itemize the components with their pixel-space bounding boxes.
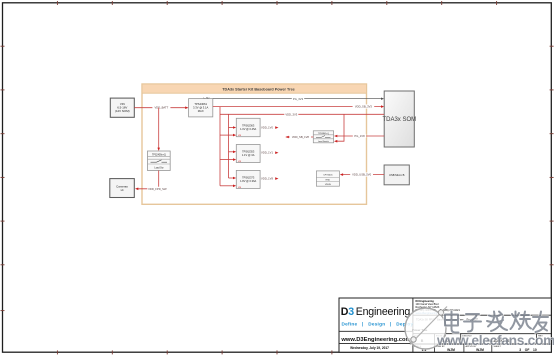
ESD protection U7 xyxy=(316,171,339,186)
wire VDD_FPD_SW to cameras xyxy=(135,171,167,192)
svg-text:3 OF 10: 3 OF 10 xyxy=(519,348,537,352)
svg-text:x4: x4 xyxy=(120,188,123,192)
wire PG_1V8 from SOM xyxy=(334,134,384,138)
svg-text:D3Engineering: D3Engineering xyxy=(341,306,411,318)
watermark elecfans xyxy=(436,312,554,349)
svg-text:3.3V @ 3.1A: 3.3V @ 3.1A xyxy=(193,106,208,110)
wire PG_3V3 xyxy=(213,97,384,101)
svg-text:VDD_FPD_SW: VDD_FPD_SW xyxy=(148,187,167,191)
svg-text:Load Sw: Load Sw xyxy=(154,168,163,170)
svg-text:L_NO: L_NO xyxy=(204,97,210,99)
svg-text:ESD: ESD xyxy=(326,179,331,181)
svg-text:VBUS: VBUS xyxy=(325,184,331,186)
wire stubs into buck U3 xyxy=(220,126,236,136)
svg-text:MAX: MAX xyxy=(198,109,204,113)
svg-text:WJM: WJM xyxy=(476,348,484,352)
wire stubs into buck U5 xyxy=(220,177,236,187)
wire VDD_USB_5V0 xyxy=(340,172,384,176)
svg-text:1.8V @ 0.36A: 1.8V @ 0.36A xyxy=(240,179,256,183)
svg-text:1.1V @ 3A: 1.1V @ 3A xyxy=(242,153,255,157)
svg-text:TPS3809+Q: TPS3809+Q xyxy=(318,133,330,135)
supervisor load switch U6 TPS3809 xyxy=(313,131,333,143)
svg-text:TPS62353: TPS62353 xyxy=(242,150,255,154)
load switch U2 TPS2459 xyxy=(148,151,171,171)
svg-text:VDD_3V3: VDD_3V3 xyxy=(285,112,297,116)
svg-text:WJM: WJM xyxy=(447,348,455,352)
watermark stamp xyxy=(405,307,447,350)
svg-text:TDA3x Starter Kit Baseboard Po: TDA3x Starter Kit Baseboard Power Tree xyxy=(222,87,295,91)
svg-text:VDD_SB_1V8: VDD_SB_1V8 xyxy=(292,135,310,139)
svg-text:VDD_USB_5V0: VDD_USB_5V0 xyxy=(352,173,371,177)
svg-text:TPS62363: TPS62363 xyxy=(242,124,255,128)
wire VDD_3V3 xyxy=(220,112,384,116)
wire drop to load switch xyxy=(157,108,160,151)
VIN source J1 xyxy=(110,98,134,117)
node VDD_1V1 output xyxy=(261,151,279,155)
svg-text:Define | Design | Depl: Define | Design | Deploy xyxy=(342,321,414,326)
power tree boundary frame xyxy=(142,84,367,204)
svg-text:PG_1V8: PG_1V8 xyxy=(354,134,365,138)
wire stubs into buck U4 xyxy=(220,151,236,161)
buck converter U1 TPS43061 3.3V xyxy=(189,97,213,116)
buck converter U3 1.0V xyxy=(236,118,260,137)
svg-text:PG_3V3: PG_3V3 xyxy=(293,97,304,101)
wire vertical bus A xyxy=(219,107,221,186)
wire 1V8 feed into U6 xyxy=(334,114,344,142)
svg-text:Wednesday, July 19, 2017: Wednesday, July 19, 2017 xyxy=(350,346,389,350)
svg-text:CPV5001: CPV5001 xyxy=(323,175,333,177)
wire VDD_SB_1V8 output of U6 xyxy=(286,135,314,139)
wire VDD_BATT xyxy=(134,105,188,109)
svg-text:VDD_1V8: VDD_1V8 xyxy=(261,177,273,181)
camera load block xyxy=(110,179,135,198)
svg-text:TDA3x SOM: TDA3x SOM xyxy=(382,117,416,123)
wire VDD_SB_3V3 xyxy=(213,104,384,108)
svg-text:TPS62373: TPS62373 xyxy=(242,176,255,180)
svg-text:www.elecfans.com: www.elecfans.com xyxy=(436,333,554,348)
svg-text:VDD_BATT: VDD_BATT xyxy=(154,106,168,110)
node VDD_1V0 output xyxy=(261,126,279,130)
buck converter U5 1.8V xyxy=(236,170,260,189)
svg-text:VDD_1V1: VDD_1V1 xyxy=(261,151,273,155)
wire vertical bus B xyxy=(228,114,230,178)
svg-text:(12V NOM): (12V NOM) xyxy=(115,109,130,113)
svg-text:VDD_SB_3V3: VDD_SB_3V3 xyxy=(355,105,373,109)
title block xyxy=(339,298,551,352)
node VDD_1V8 output xyxy=(261,177,279,181)
svg-text:www.D3Engineering.com: www.D3Engineering.com xyxy=(340,337,410,343)
svg-text:TPS43061: TPS43061 xyxy=(194,102,207,106)
USB Micro B connector xyxy=(384,165,409,185)
svg-text:USB Micro B: USB Micro B xyxy=(389,173,405,177)
svg-text:Power Tree: Power Tree xyxy=(412,328,428,332)
buck converter U4 1.1V xyxy=(236,145,260,164)
svg-text:VDD_1V0: VDD_1V0 xyxy=(261,126,273,130)
svg-text:1.0V @ 0.45A: 1.0V @ 0.45A xyxy=(240,127,256,131)
svg-text:TPS2459x+Q: TPS2459x+Q xyxy=(152,154,166,156)
TDA3x SOM U10 xyxy=(382,91,416,147)
svg-text:Load Switch: Load Switch xyxy=(318,140,329,143)
